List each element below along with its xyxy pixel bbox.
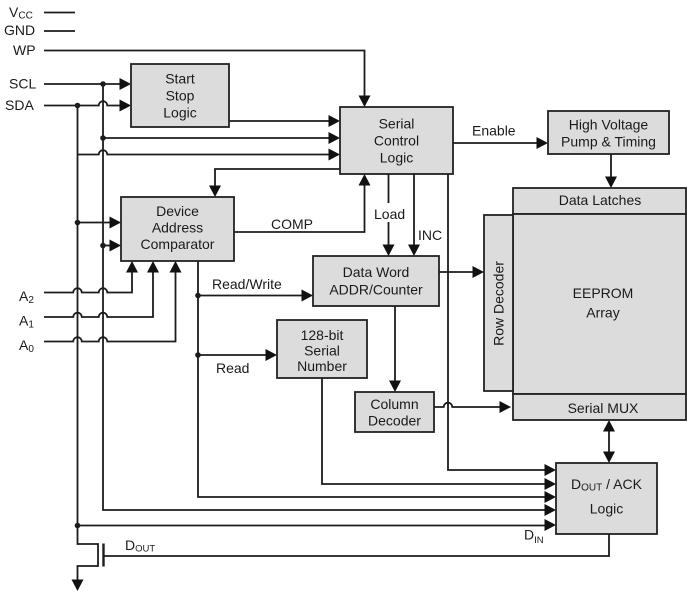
wire SCL branch into Serial Control Logic: [103, 137, 333, 139]
transistor Q1 source-drain path: [78, 526, 99, 584]
arrowhead SCL into Start Stop Logic: [120, 78, 132, 90]
svg-text:Load: Load: [374, 206, 405, 222]
wire COMP from comparator to Serial Control Logic bottom: [234, 181, 365, 232]
svg-text:Number: Number: [297, 358, 347, 374]
arrowhead into Column Decoder top: [389, 381, 401, 393]
svg-text:A0: A0: [19, 337, 34, 355]
arrowhead Enable into High Voltage Pump: [537, 137, 549, 149]
svg-text:Device: Device: [156, 203, 199, 219]
wire A0 (hops over SDA and SCL verticals): [44, 268, 176, 342]
wire Read/Write to Data Word ADDR: [198, 295, 306, 297]
svg-text:Decoder: Decoder: [368, 413, 421, 429]
wire SDA into Start Stop Logic (hop over SCL vertical): [44, 101, 124, 105]
svg-text:High Voltage: High Voltage: [569, 117, 649, 133]
svg-text:Address: Address: [152, 220, 203, 236]
svg-text:Stop: Stop: [166, 88, 195, 104]
svg-text:EEPROM: EEPROM: [573, 285, 634, 301]
arrowhead into Dout/ACK input 4: [545, 504, 557, 516]
svg-text:VCC: VCC: [9, 4, 33, 22]
svg-text:Row Decoder: Row Decoder: [491, 261, 507, 346]
arrowhead SDA into Start Stop Logic: [120, 100, 132, 112]
wire WP to Serial Control Logic top: [44, 51, 365, 100]
arrowhead double arrow up into Serial MUX: [603, 420, 615, 432]
wire SCL branch into Device Address Comparator: [103, 245, 114, 247]
svg-text:Logic: Logic: [380, 150, 413, 166]
wire Serial Control Logic to Dout/ACK input 1: [448, 174, 549, 470]
wire SDA branch into Serial Control Logic (hop over SCL vertical): [78, 150, 334, 154]
svg-text:Column: Column: [370, 396, 418, 412]
wire High Voltage Pump to Data Latches: [610, 154, 612, 181]
node SCL-SerialControl junction: [100, 135, 106, 141]
wire A1 (hops over SDA and SCL verticals): [44, 268, 153, 317]
svg-text:Pump & Timing: Pump & Timing: [561, 134, 656, 150]
arrowhead into Dout/ACK input 2: [545, 478, 557, 490]
wire Serial Control Logic to Device Address Comparator top: [215, 169, 340, 190]
node ReadWrite junction: [195, 293, 201, 299]
wire Data Word ADDR to Column Decoder: [394, 306, 396, 385]
wire SDA branch into Device Address Comparator: [78, 222, 115, 224]
arrowhead Column Decoder into Serial MUX: [500, 401, 512, 413]
arrowhead wire1 into Serial Control Logic: [329, 115, 341, 127]
box High Voltage Pump and Timing: [548, 111, 669, 154]
wire A2 (hops over SDA and SCL verticals): [44, 268, 132, 293]
svg-text:Comparator: Comparator: [141, 236, 215, 252]
transistor Q1 gate wire from Dout/ACK logic: [105, 534, 610, 556]
box Serial MUX: [513, 394, 686, 420]
arrowhead WP down into Serial Control Logic: [359, 96, 371, 108]
box Serial Control Logic: [340, 107, 453, 174]
transistor Q1 gate bar: [102, 544, 104, 567]
svg-text:Control: Control: [374, 133, 419, 149]
svg-text:Serial: Serial: [379, 116, 415, 132]
wire Enable: [453, 142, 541, 144]
node SCL-StartStop junction: [100, 81, 106, 87]
arrowhead Read into 128-bit Serial Number: [266, 349, 278, 361]
node SDA-Din junction: [75, 523, 81, 529]
svg-text:Enable: Enable: [472, 123, 516, 139]
arrowhead Data Word into Row Decoder: [473, 266, 485, 278]
arrowhead into Dout/ACK input 3: [545, 491, 557, 503]
wire Read to 128-bit Serial Number: [198, 354, 270, 356]
node Read junction: [195, 352, 201, 358]
wire Column Decoder to Serial MUX (hop over vertical): [434, 403, 504, 407]
wire Load: [388, 174, 390, 249]
svg-text:GND: GND: [4, 22, 35, 38]
svg-text:Array: Array: [586, 305, 619, 321]
arrowhead double arrow down into Dout/ACK: [603, 452, 615, 464]
box Data Word ADDR/Counter: [313, 256, 439, 306]
svg-text:DOUT: DOUT: [125, 537, 155, 555]
wire Start Stop Logic output to Serial Control Logic: [229, 120, 333, 122]
wire Vcc stub: [44, 12, 75, 14]
label Load (white knockout over wire): [371, 203, 408, 222]
wire GND stub: [44, 30, 75, 32]
arrowhead SCL into comparator: [110, 240, 122, 252]
svg-text:128-bit: 128-bit: [301, 327, 344, 343]
box Start Stop Logic: [131, 64, 229, 127]
box Column Decoder: [355, 392, 434, 432]
arrowhead SDA into comparator: [110, 217, 122, 229]
arrowhead Load into Data Word ADDR: [383, 245, 395, 257]
svg-text:Serial MUX: Serial MUX: [568, 400, 639, 416]
arrowhead High Voltage Pump into Data Latches: [605, 177, 617, 189]
arrowhead A0 into comparator bottom: [170, 261, 182, 273]
wire Data Word ADDR to Row Decoder: [439, 271, 477, 273]
node SDA-comparator junction: [75, 220, 81, 226]
arrowhead A1 into comparator bottom: [147, 261, 159, 273]
svg-text:ADDR/Counter: ADDR/Counter: [329, 282, 423, 298]
wire double arrow Serial MUX to Dout/ACK: [608, 427, 610, 456]
svg-text:Read: Read: [216, 360, 249, 376]
box 128-bit Serial Number: [277, 320, 367, 378]
arrowhead into Device Address Comparator top: [209, 186, 221, 198]
arrowhead into Dout/ACK input 1: [545, 464, 557, 476]
svg-text:Logic: Logic: [590, 501, 623, 517]
svg-text:INC: INC: [418, 227, 442, 243]
svg-text:SDA: SDA: [5, 97, 34, 113]
arrowhead Read/Write into Data Word ADDR: [302, 290, 314, 302]
box EEPROM Array: [513, 214, 686, 394]
svg-text:Data Latches: Data Latches: [559, 192, 642, 208]
wire SDA vertical trunk: [77, 106, 79, 526]
wire comparator output trunk down to Dout/ACK input 3: [198, 261, 549, 497]
wire SDA to Dout/ACK Din input: [78, 525, 550, 527]
wire Serial Number down to Dout/ACK input 2: [322, 378, 549, 484]
svg-text:COMP: COMP: [271, 216, 313, 232]
node SCL-comparator junction: [100, 243, 106, 249]
arrowhead into Dout/ACK input 5: [545, 519, 557, 531]
box Device Address Comparator: [121, 197, 234, 261]
node SDA-StartStop junction: [75, 103, 81, 109]
wire INC: [413, 174, 415, 249]
arrowhead INC into Data Word ADDR: [408, 245, 420, 257]
svg-text:Data Word: Data Word: [343, 264, 410, 280]
box Row Decoder: [484, 215, 513, 391]
svg-text:Start: Start: [165, 71, 195, 87]
arrowhead COMP up into Serial Control Logic: [359, 174, 371, 186]
svg-text:WP: WP: [13, 42, 36, 58]
svg-text:Read/Write: Read/Write: [212, 276, 282, 292]
wire SCL vertical trunk down to Dout/ACK input: [103, 84, 549, 510]
svg-text:A2: A2: [19, 288, 34, 306]
arrowhead wire3 into Serial Control Logic: [329, 149, 341, 161]
box Dout/ACK Logic: [556, 463, 657, 534]
wire SCL into Start Stop Logic: [44, 83, 124, 85]
arrowhead Dout output down: [72, 580, 84, 592]
svg-text:Serial: Serial: [304, 343, 340, 359]
svg-text:Logic: Logic: [163, 105, 196, 121]
svg-text:DIN: DIN: [524, 527, 544, 547]
arrowhead A2 into comparator bottom: [126, 261, 138, 273]
box Data Latches: [513, 188, 686, 214]
svg-text:SCL: SCL: [9, 76, 36, 92]
arrowhead wire2 into Serial Control Logic: [329, 132, 341, 144]
svg-text:A1: A1: [19, 313, 34, 331]
